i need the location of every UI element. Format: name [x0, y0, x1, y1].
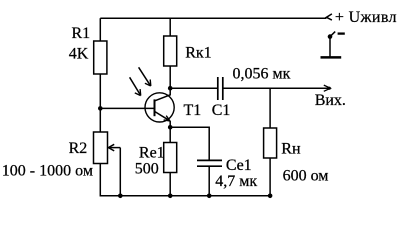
wire left rail upper — [99, 18, 101, 41]
node Re1-bottom — [168, 194, 173, 199]
wire emitter to Ce1 — [170, 127, 209, 160]
light arrow 1 — [130, 77, 141, 95]
resistor R2 potentiometer — [94, 132, 108, 164]
svg-text:100 - 1000 ом: 100 - 1000 ом — [2, 163, 93, 180]
wire left rail middle — [99, 74, 101, 132]
wire base — [100, 107, 153, 109]
minus terminal node — [321, 32, 345, 58]
wire Ce1 to bottom rail — [208, 166, 210, 196]
wire Rн branch — [269, 88, 271, 128]
svg-text:+ Uживл: + Uживл — [335, 9, 397, 26]
wire Rн to bottom rail — [269, 158, 271, 196]
capacitor C1 — [218, 77, 223, 100]
node emitter — [168, 125, 173, 130]
wiper arrow R2 — [108, 144, 120, 196]
svg-text:Вих.: Вих. — [315, 92, 346, 109]
wire Rk1 to collector node — [169, 66, 171, 88]
node wiper-bottom — [118, 194, 123, 199]
node base junction — [98, 106, 103, 111]
resistor R1 — [94, 41, 107, 74]
capacitor Ce1 — [197, 160, 222, 166]
node collector — [168, 86, 173, 91]
svg-text:4K: 4K — [69, 46, 89, 63]
svg-text:Cе1: Cе1 — [226, 157, 252, 174]
wire left rail lower and bottom rail — [100, 164, 270, 196]
svg-text:T1: T1 — [184, 102, 202, 119]
output arrow — [324, 85, 331, 91]
wire collector branch upper — [169, 18, 171, 36]
svg-text:0,056 мк: 0,056 мк — [233, 65, 291, 82]
power input arrow < — [326, 14, 332, 20]
resistor Rн — [264, 128, 277, 158]
resistor Re1 — [164, 143, 177, 173]
svg-text:Rн: Rн — [281, 140, 301, 157]
wire top supply rail — [100, 17, 326, 19]
svg-text:600 ом: 600 ом — [283, 167, 329, 184]
light arrow 2 — [139, 67, 151, 86]
resistor Rk1 — [164, 36, 177, 66]
svg-text:4,7 мк: 4,7 мк — [215, 173, 257, 190]
svg-text:C1: C1 — [212, 102, 231, 119]
wire C1 to output — [223, 87, 329, 89]
svg-text:Rе1: Rе1 — [139, 144, 165, 161]
node Rн-bottom — [268, 194, 273, 199]
svg-text:R1: R1 — [72, 25, 91, 42]
node Ce1-bottom — [207, 194, 212, 199]
svg-text:500: 500 — [135, 161, 159, 178]
svg-text:Rк1: Rк1 — [185, 45, 211, 62]
wire Re1 to bottom rail — [169, 173, 171, 196]
transistor T1 phototransistor — [145, 88, 174, 127]
wire collector to C1 — [170, 87, 217, 89]
svg-text:R2: R2 — [69, 140, 88, 157]
wire emitter to Re1 — [169, 127, 171, 142]
